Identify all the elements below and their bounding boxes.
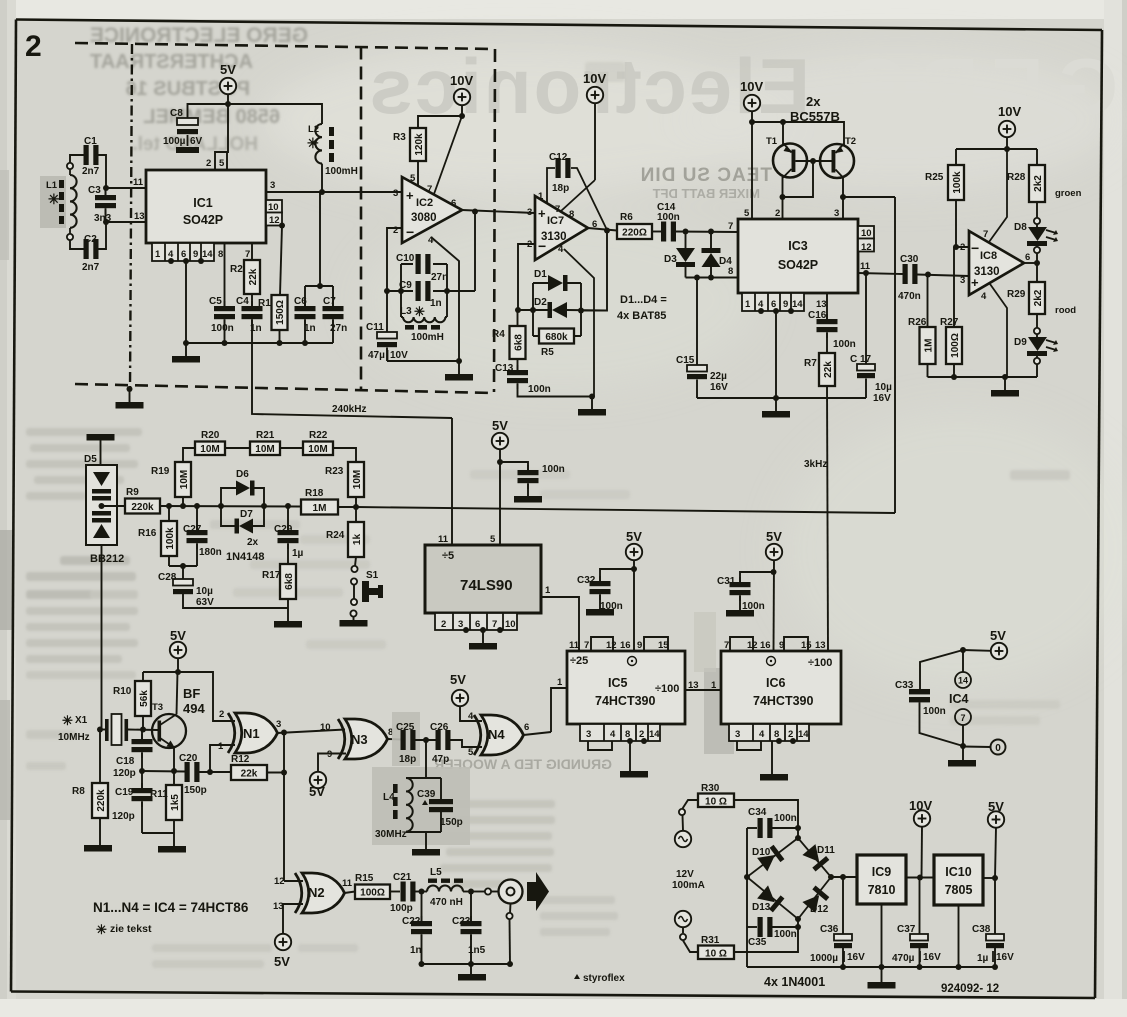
svg-text:180n: 180n	[199, 547, 222, 558]
svg-text:1: 1	[218, 741, 224, 752]
svg-text:T2: T2	[845, 136, 856, 147]
svg-text:÷100: ÷100	[808, 657, 832, 669]
IC9 7810	[857, 855, 906, 904]
svg-text:C16: C16	[808, 310, 827, 321]
svg-text:6: 6	[451, 198, 456, 209]
svg-text:C28: C28	[158, 572, 177, 583]
svg-text:R30: R30	[701, 783, 720, 794]
op-amp IC2 3080	[402, 177, 462, 243]
svg-text:4: 4	[558, 244, 564, 255]
capacitor C34 100n	[747, 827, 757, 829]
svg-text:C23: C23	[452, 916, 471, 927]
capacitor C35 100n	[747, 926, 757, 928]
output wire to IC7	[462, 210, 535, 213]
node 5V rail	[225, 101, 231, 107]
svg-text:10MHz: 10MHz	[58, 732, 90, 743]
svg-text:120p: 120p	[113, 768, 136, 779]
wire output node down to C9 line	[474, 212, 476, 292]
svg-text:16V: 16V	[923, 952, 941, 963]
capacitor C5 100n	[214, 301, 235, 325]
svg-text:100µ: 100µ	[163, 136, 186, 147]
resistor R4 6k8	[517, 310, 519, 326]
svg-text:C39: C39	[417, 789, 436, 800]
svg-text:C38: C38	[972, 924, 991, 935]
resistor R31 10ohm	[698, 946, 734, 960]
diode D2	[552, 302, 567, 318]
svg-text:2n7: 2n7	[82, 166, 100, 177]
IC4 pin 14	[962, 650, 964, 672]
pin row junction dots	[168, 258, 174, 264]
svg-text:100Ω: 100Ω	[360, 888, 385, 899]
svg-text:÷5: ÷5	[442, 550, 454, 562]
svg-text:5: 5	[490, 534, 496, 545]
svg-text:13: 13	[134, 211, 145, 222]
svg-text:R10: R10	[113, 686, 132, 697]
svg-text:C6: C6	[294, 296, 307, 307]
pin 2 wire down	[518, 244, 535, 310]
svg-text:6: 6	[1025, 252, 1030, 263]
wire L1 top to C1	[70, 155, 84, 163]
svg-text:22k: 22k	[823, 361, 834, 378]
svg-text:10µ: 10µ	[875, 382, 892, 393]
diode D1	[548, 275, 563, 291]
svg-text:7: 7	[245, 249, 250, 260]
svg-text:−: −	[538, 238, 546, 254]
svg-text:10µ: 10µ	[196, 586, 213, 597]
svg-text:16V: 16V	[847, 952, 865, 963]
svg-text:N2: N2	[308, 885, 325, 900]
diode D7	[221, 506, 264, 526]
capacitor C19 120p	[139, 768, 145, 774]
svg-text:10M: 10M	[200, 444, 219, 455]
svg-text:D3: D3	[664, 254, 677, 265]
svg-text:10V: 10V	[740, 79, 763, 94]
snubber rail left	[746, 828, 748, 967]
LED D9	[1036, 314, 1038, 328]
diode D6	[221, 488, 264, 506]
svg-text:2n7: 2n7	[82, 262, 100, 273]
svg-text:R23: R23	[325, 466, 344, 477]
svg-text:D9: D9	[1014, 337, 1027, 348]
capacitor C38 1u	[994, 878, 996, 934]
capacitor C36 1000u	[842, 877, 844, 934]
svg-text:16V: 16V	[873, 393, 891, 404]
svg-text:C26: C26	[430, 722, 449, 733]
output arrow	[527, 872, 549, 911]
svg-text:✳: ✳	[62, 713, 73, 728]
svg-text:11: 11	[133, 177, 144, 188]
svg-text:+: +	[538, 206, 546, 221]
R25 to pin 2	[956, 200, 969, 247]
op-amp IC7 3130	[535, 196, 588, 260]
IC3 bottom pin row 1,4,6,9,14	[742, 293, 804, 311]
wire C13 to ground	[518, 384, 593, 397]
resistor R10 56k	[142, 672, 144, 681]
svg-text:7805: 7805	[945, 883, 973, 897]
svg-text:14: 14	[958, 676, 968, 686]
svg-text:C5: C5	[209, 296, 222, 307]
output feedback down to D loop	[581, 231, 607, 311]
dashed oscillator box	[75, 43, 495, 393]
diode D4	[710, 232, 712, 249]
svg-text:+: +	[971, 275, 979, 290]
wire 10V to pin7	[989, 149, 1007, 242]
xor gate N4	[474, 715, 524, 755]
ghost: between IC5 and IC6 smudge	[704, 668, 734, 754]
capacitor C15 22u	[696, 278, 698, 366]
svg-text:150Ω: 150Ω	[275, 300, 286, 325]
svg-text:C10: C10	[396, 253, 415, 264]
svg-text:5V: 5V	[492, 418, 508, 433]
pin 11 wire to C30	[858, 273, 903, 274]
wire to C8	[188, 104, 229, 118]
svg-text:9: 9	[637, 640, 642, 651]
svg-text:924092- 12: 924092- 12	[941, 983, 999, 995]
resistor R7 22k	[819, 353, 835, 386]
svg-text:13: 13	[816, 299, 827, 310]
svg-text:D12: D12	[810, 904, 829, 915]
capacitor C14 100n	[652, 231, 661, 233]
svg-text:R11: R11	[150, 789, 168, 800]
svg-text:C30: C30	[900, 254, 919, 265]
svg-text:150p: 150p	[184, 785, 207, 796]
svg-text:18p: 18p	[552, 183, 569, 194]
svg-text:BB212: BB212	[90, 553, 124, 565]
ground rail IC2	[387, 360, 459, 362]
node pins10/12	[279, 223, 285, 229]
svg-text:1000µ: 1000µ	[810, 953, 838, 964]
svg-text:zie tekst: zie tekst	[110, 923, 152, 935]
svg-text:240kHz: 240kHz	[332, 404, 366, 415]
svg-text:C25: C25	[396, 722, 415, 733]
svg-text:R2: R2	[230, 264, 243, 275]
IC10 output	[983, 877, 995, 879]
svg-text:56k: 56k	[139, 690, 150, 707]
wire C20 to N1 pin1	[210, 745, 235, 772]
svg-text:2: 2	[441, 619, 446, 630]
IC 74LS90	[425, 545, 541, 613]
regulator ground stems	[881, 904, 883, 967]
dash-dot screen divider	[130, 44, 132, 389]
ground symbol	[185, 343, 187, 356]
R26 R27 to rail	[928, 364, 955, 377]
base tie wire	[783, 161, 832, 197]
svg-text:L5: L5	[430, 867, 442, 878]
svg-text:R17: R17	[262, 570, 281, 581]
capacitor C29 1u	[287, 506, 289, 533]
junction R16 C27	[169, 565, 197, 567]
resistor R18 1M	[301, 500, 338, 515]
svg-text:13: 13	[273, 901, 284, 912]
svg-text:100n: 100n	[528, 384, 551, 395]
T3 collector wire	[177, 672, 178, 715]
IC6 74HCT390	[721, 651, 841, 724]
svg-text:C13: C13	[495, 363, 514, 374]
svg-text:R4: R4	[492, 329, 505, 340]
10V output terminal	[921, 827, 924, 878]
svg-text:10V: 10V	[450, 73, 473, 88]
capacitor C30 470n	[903, 264, 918, 284]
IC4 pin 7	[955, 709, 971, 725]
svg-text:✳: ✳	[414, 304, 425, 319]
top rail	[956, 149, 1037, 165]
svg-text:74HCT390: 74HCT390	[753, 694, 813, 708]
svg-text:2: 2	[960, 242, 965, 253]
emitter rail	[142, 770, 185, 773]
svg-text:7: 7	[983, 229, 988, 240]
resistor R21 10M	[250, 442, 280, 456]
inductor L3 100mH	[403, 317, 445, 322]
svg-text:63V: 63V	[196, 597, 214, 608]
svg-text:1: 1	[557, 677, 563, 688]
svg-text:SO42P: SO42P	[778, 258, 818, 272]
svg-text:74LS90: 74LS90	[460, 577, 513, 594]
left margin dark streaks outside border	[0, 530, 12, 630]
resistor R1 150ohm	[272, 295, 288, 330]
svg-text:SO42P: SO42P	[183, 213, 223, 227]
capacitor C37 470u	[919, 878, 921, 935]
svg-text:IC10: IC10	[945, 865, 971, 879]
svg-text:74HCT390: 74HCT390	[595, 694, 655, 708]
styroflex note	[574, 974, 580, 979]
pin 7 stub to R2	[251, 243, 253, 260]
resistor R3 120k	[410, 128, 426, 161]
svg-text:6k8: 6k8	[284, 573, 295, 590]
svg-text:12: 12	[861, 242, 872, 253]
svg-text:16V: 16V	[996, 952, 1014, 963]
svg-text:150p: 150p	[440, 817, 463, 828]
svg-text:1: 1	[155, 249, 161, 260]
svg-text:11: 11	[569, 640, 580, 651]
svg-text:100mH: 100mH	[411, 332, 444, 343]
svg-text:680k: 680k	[545, 332, 568, 343]
xor gate N2	[295, 873, 345, 913]
xor gate N1	[228, 713, 278, 753]
emitter rail to T1 T2	[752, 122, 844, 145]
svg-text:1n: 1n	[410, 945, 422, 956]
main loop node wire	[160, 505, 301, 508]
svg-text:C19: C19	[115, 787, 134, 798]
svg-text:L4: L4	[383, 792, 395, 803]
resistor R20 10M	[195, 442, 225, 456]
svg-text:5V: 5V	[626, 529, 642, 544]
svg-text:10M: 10M	[308, 444, 327, 455]
decoupling 100n at 74LS90	[500, 462, 528, 473]
diode D12	[802, 886, 829, 914]
svg-text:R31: R31	[701, 935, 720, 946]
svg-text:IC7: IC7	[547, 215, 564, 227]
svg-text:3: 3	[270, 180, 275, 191]
N2 output wire	[345, 892, 356, 894]
svg-text:3080: 3080	[411, 212, 437, 224]
svg-text:IC9: IC9	[872, 865, 892, 879]
svg-text:8: 8	[218, 249, 223, 260]
gray patch C25	[392, 712, 420, 766]
capacitor C20 150p	[185, 762, 200, 782]
output node pin 6	[1024, 262, 1037, 264]
svg-text:R26: R26	[908, 317, 927, 328]
ghost: right column bits	[585, 62, 1070, 725]
svg-text:7: 7	[427, 184, 432, 195]
svg-text:MIXER BATT DFT: MIXER BATT DFT	[653, 186, 760, 201]
74LS90 bottom pin row 2,3,6,7,10	[435, 613, 517, 630]
svg-text:100n: 100n	[774, 813, 797, 824]
wire L2 to pin3 line	[321, 164, 323, 192]
node dots	[398, 288, 404, 294]
inductor L1	[70, 165, 77, 238]
diode D3	[685, 232, 687, 249]
svg-text:5V: 5V	[450, 672, 466, 687]
ghost: left margin paragraphs	[0, 0, 1, 1]
svg-text:16V: 16V	[710, 382, 728, 393]
svg-text:R20: R20	[201, 430, 220, 441]
wire R3 to pin5	[417, 161, 419, 187]
svg-text:100k: 100k	[952, 171, 963, 194]
svg-text:120k: 120k	[414, 133, 425, 156]
BNC connector	[499, 880, 523, 904]
T3 emitter wire	[173, 748, 175, 771]
resistor R17 6k8	[280, 564, 296, 599]
svg-text:1M: 1M	[924, 339, 935, 353]
pin 4 wire to ground	[431, 237, 459, 361]
svg-text:IC8: IC8	[980, 250, 997, 262]
svg-text:7: 7	[555, 204, 560, 215]
svg-text:R16: R16	[138, 528, 157, 539]
svg-text:10 Ω: 10 Ω	[705, 949, 727, 960]
svg-text:3: 3	[960, 275, 965, 286]
capacitor C6 1n	[295, 301, 316, 325]
ground IC4	[962, 746, 964, 760]
node A	[103, 185, 109, 191]
0V terminal	[963, 746, 991, 749]
resistor R15 100ohm	[355, 885, 390, 900]
svg-text:D11: D11	[817, 845, 835, 856]
node L2/pin3	[319, 189, 325, 195]
svg-text:3: 3	[735, 729, 740, 740]
svg-text:100Ω: 100Ω	[950, 333, 961, 358]
svg-text:18p: 18p	[399, 754, 416, 765]
svg-text:R7: R7	[804, 358, 817, 369]
ghost: big GERO Electronics headline	[367, 42, 1118, 131]
wire pin row to ground rail	[775, 311, 777, 398]
output coupling circle	[475, 891, 485, 893]
svg-text:✳: ✳	[307, 135, 319, 151]
feedback network frame	[387, 264, 475, 317]
svg-text:1: 1	[538, 191, 544, 202]
capacitor C1	[84, 145, 99, 165]
capacitor C21 100p	[401, 882, 416, 902]
wire D5 down to X1 (long)	[101, 545, 103, 729]
T2 collector wire right (to loop filter)	[843, 196, 895, 198]
svg-text:100n: 100n	[774, 929, 797, 940]
svg-text:6580 BEMMEL: 6580 BEMMEL	[143, 106, 280, 128]
svg-text:5: 5	[468, 747, 474, 758]
svg-text:7: 7	[728, 221, 733, 232]
svg-text:4x BAT85: 4x BAT85	[617, 310, 666, 322]
svg-text:IC3: IC3	[788, 239, 808, 253]
resistor R6 220ohm	[617, 224, 652, 239]
bridge to IC9	[831, 876, 857, 878]
bottom rail IC8	[928, 376, 1038, 378]
resistor R28 2k2	[1029, 165, 1045, 202]
svg-text:12: 12	[274, 876, 285, 887]
wire 10V diagonal to pin7	[434, 116, 462, 194]
svg-text:÷25: ÷25	[570, 655, 588, 667]
output node wire	[588, 228, 617, 231]
wire C14 to IC3 pin7	[675, 231, 738, 234]
svg-text:styroflex: styroflex	[583, 973, 625, 984]
svg-text:2: 2	[219, 709, 224, 720]
svg-text:22k: 22k	[241, 769, 258, 780]
svg-text:5V: 5V	[990, 628, 1006, 643]
svg-text:5V: 5V	[170, 628, 186, 643]
svg-text:2: 2	[775, 208, 780, 219]
svg-text:D8: D8	[1014, 222, 1027, 233]
capacitor C9 1n	[416, 281, 431, 301]
svg-text:−: −	[406, 224, 414, 240]
svg-text:T1: T1	[766, 136, 778, 147]
IC6 bottom pin row 3,4,8,2,14	[729, 724, 809, 741]
inductor L1 shaded box	[40, 176, 66, 228]
capacitor C12 18p	[556, 158, 571, 178]
svg-text:470 nH: 470 nH	[430, 897, 463, 908]
svg-text:47µ: 47µ	[368, 350, 385, 361]
capacitor C39 150p	[440, 778, 442, 799]
capacitor C11 47u	[386, 291, 388, 332]
capacitor C4 1n	[251, 294, 253, 308]
svg-text:groen: groen	[1055, 188, 1082, 199]
wire L1 bottom to C2	[70, 240, 84, 249]
svg-text:R18: R18	[305, 488, 324, 499]
svg-text:10: 10	[320, 722, 331, 733]
svg-text:C27: C27	[183, 524, 202, 535]
svg-text:13: 13	[815, 640, 826, 651]
svg-text:−: −	[971, 240, 979, 256]
svg-text:16: 16	[620, 640, 631, 651]
svg-text:D7: D7	[240, 509, 253, 520]
BNC shield to ground	[509, 904, 512, 914]
svg-text:IC5: IC5	[608, 676, 628, 690]
svg-text:R27: R27	[940, 317, 959, 328]
wire C2 to node B	[98, 222, 106, 249]
svg-text:6: 6	[524, 722, 529, 733]
svg-text:+: +	[406, 188, 414, 203]
inductor L5 470nH	[427, 886, 463, 892]
inductor L2	[315, 124, 322, 164]
svg-text:100n: 100n	[833, 339, 856, 350]
svg-text:8: 8	[569, 209, 574, 220]
resistor R22 10M	[303, 442, 333, 456]
svg-text:L1: L1	[46, 180, 58, 191]
IC1 bottom pin row 1,4,6,9,14	[152, 243, 214, 261]
wire C28 to R17 ground	[183, 594, 288, 608]
IC6 input brackets	[730, 637, 753, 651]
svg-text:IC2: IC2	[416, 197, 433, 209]
IC5 input brackets	[591, 637, 613, 651]
svg-text:5V: 5V	[766, 529, 782, 544]
svg-text:470n: 470n	[898, 291, 921, 302]
N1 output down to R12 and N2	[283, 733, 285, 882]
svg-text:10V: 10V	[390, 350, 408, 361]
svg-text:10M: 10M	[255, 444, 274, 455]
capacitor C18 120p	[141, 730, 143, 744]
svg-text:C37: C37	[897, 924, 916, 935]
wire pins10/12 to R1	[280, 226, 282, 296]
IC1 SO42P	[146, 170, 266, 243]
svg-text:12V: 12V	[676, 869, 694, 880]
capacitor C16 100n	[817, 314, 838, 338]
wire node A to pin 11	[106, 187, 146, 189]
